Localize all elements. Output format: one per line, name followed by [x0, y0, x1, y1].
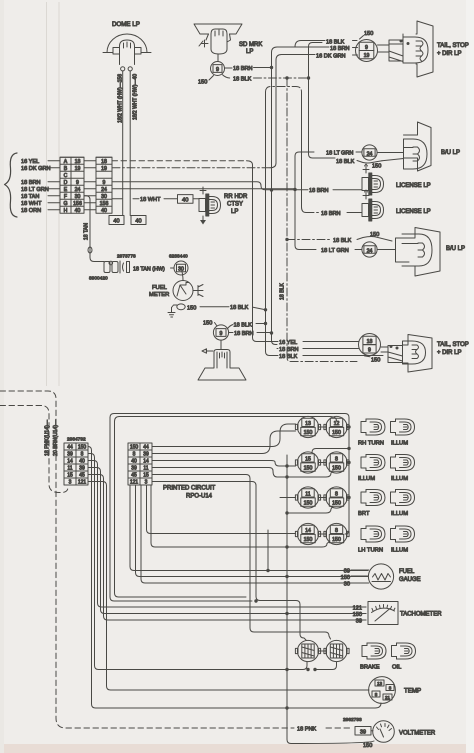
svg-text:8: 8 — [389, 685, 392, 690]
svg-text:19: 19 — [364, 53, 370, 59]
connector 18/9 (LH tail) — [359, 334, 381, 356]
wire 16 DK GRN to RH tail — [276, 53, 358, 60]
wire 18 BRN row — [112, 182, 272, 190]
wire dome 156 (18/2 WHT) — [118, 71, 124, 216]
wire 16 YEL LH tail — [279, 340, 359, 346]
svg-text:18 BLK: 18 BLK — [279, 282, 285, 300]
svg-text:18 PNK(U14)—: 18 PNK(U14)— — [45, 419, 51, 456]
wire 18 WHT box40 to CTSY — [193, 198, 199, 200]
wire 18 LT GRN row — [112, 188, 295, 190]
wire block bottom to fuel 30 — [141, 485, 368, 583]
svg-text:18 WHT: 18 WHT — [21, 201, 42, 207]
svg-text:8900420: 8900420 — [89, 276, 108, 282]
svg-text:150: 150 — [332, 537, 341, 543]
svg-text:18 BLK: 18 BLK — [233, 77, 252, 83]
svg-text:18 BRN: 18 BRN — [21, 180, 41, 186]
svg-text:18 BRN: 18 BRN — [321, 211, 341, 217]
svg-text:ILLUM: ILLUM — [358, 476, 375, 482]
wire 18 BLK B/U 1 + 150 — [336, 159, 382, 170]
lamp RR HDR CTSY LP — [199, 187, 248, 225]
bulb ILLUM — [391, 455, 415, 471]
wire block L to tach 39 — [88, 475, 366, 621]
svg-text:150: 150 — [341, 575, 350, 581]
wire block to socket row2 b — [152, 468, 333, 478]
wire 18 BLK to RH tail — [295, 39, 357, 47]
label PRINTED CIRCUIT RPO-U14 — [163, 486, 216, 500]
svg-text:2984792: 2984792 — [67, 437, 86, 443]
wire block to socket row2 a — [152, 461, 296, 467]
svg-text:8: 8 — [375, 692, 378, 697]
svg-text:BRAKE: BRAKE — [360, 665, 380, 671]
harness brace — [5, 153, 18, 217]
wire block bottom to socket row4 — [147, 485, 296, 534]
wire loop inner (top, to socket row1b) — [115, 417, 337, 422]
svg-text:18 LT GRN: 18 LT GRN — [321, 248, 349, 254]
svg-text:LICENSE LP: LICENSE LP — [396, 183, 431, 189]
bulb RH TURN — [361, 419, 385, 435]
wire block bottom to fuel 150 — [136, 485, 369, 577]
instrument socket 8/150 — [324, 452, 349, 473]
svg-text:8: 8 — [335, 528, 338, 534]
svg-text:18 BRN: 18 BRN — [309, 188, 329, 194]
svg-text:18 TAN (HW): 18 TAN (HW) — [133, 266, 165, 272]
connector box 40 (right) — [131, 216, 146, 225]
bulb BRT — [361, 490, 385, 506]
wire 18 BRN LH tail — [279, 347, 359, 353]
socket jumper — [319, 426, 326, 428]
wire license 2 drop — [302, 92, 307, 213]
wire row1 jumper — [312, 449, 349, 453]
svg-text:BRT: BRT — [358, 511, 370, 517]
svg-text:PRINTED CIRCUIT: PRINTED CIRCUIT — [163, 486, 216, 492]
svg-text:150: 150 — [304, 430, 313, 436]
svg-text:18 BLK: 18 BLK — [279, 354, 298, 360]
svg-text:ILLUM: ILLUM — [391, 548, 408, 554]
svg-text:18 BRN: 18 BRN — [233, 66, 253, 72]
lamp TAIL STOP + DIR LP (RH, top) — [389, 21, 433, 77]
svg-text:B/U LP: B/U LP — [441, 150, 460, 156]
ground lug 150 (fuel) — [168, 304, 266, 317]
bulb ILLUM — [391, 490, 415, 506]
svg-text:150: 150 — [364, 31, 373, 37]
bulb LH TURN — [361, 526, 385, 542]
svg-text:11: 11 — [305, 492, 310, 498]
connector 9 (rear side marker) — [203, 321, 229, 341]
svg-text:39: 39 — [344, 568, 350, 574]
svg-text:16 YEL: 16 YEL — [279, 340, 297, 346]
svg-text:SD MRK: SD MRK — [239, 42, 262, 48]
svg-text:39: 39 — [356, 619, 362, 625]
svg-text:LP: LP — [231, 209, 238, 215]
inline connectors fuel — [104, 261, 130, 273]
svg-text:8: 8 — [335, 457, 338, 463]
wire 18 BLK B/U 2 + 150 — [333, 232, 392, 244]
svg-text:18 BRN: 18 BRN — [234, 331, 254, 337]
svg-text:20 BRN(U14)—: 20 BRN(U14)— — [53, 419, 59, 456]
instrument socket 11/150 — [295, 487, 320, 508]
connector block C100 (letters) — [60, 157, 84, 214]
wire leads RH tail — [378, 45, 390, 52]
bulb OIL — [392, 643, 416, 659]
svg-text:GAUGE: GAUGE — [399, 577, 421, 583]
svg-text:21: 21 — [385, 695, 391, 700]
svg-text:150: 150 — [332, 466, 341, 472]
svg-text:METER: METER — [149, 292, 169, 298]
svg-text:+ DIR LP: + DIR LP — [437, 350, 462, 356]
svg-text:9: 9 — [216, 67, 219, 73]
wire loop outer left leg — [110, 418, 258, 603]
wire block L to tach 150 — [88, 468, 366, 614]
svg-text:2962793: 2962793 — [343, 717, 362, 723]
wire 18 BRN trunk — [270, 53, 341, 349]
svg-text:3: 3 — [69, 480, 72, 486]
svg-text:18/2 WHT (HW)—156: 18/2 WHT (HW)—156 — [118, 74, 124, 123]
svg-text:150: 150 — [304, 466, 313, 472]
bulb ILLUM — [391, 526, 415, 542]
svg-text:9: 9 — [220, 331, 223, 337]
socket jumper — [319, 497, 326, 499]
lamp B/U LP 2 (wide) — [396, 228, 441, 277]
svg-text:ILLUM: ILLUM — [391, 476, 408, 482]
wire block row6 to BRAKE top — [152, 482, 306, 641]
wire 18 BLK side marker (dash-dot) — [223, 75, 311, 83]
svg-text:24: 24 — [367, 248, 373, 254]
svg-text:RR HDR: RR HDR — [224, 194, 248, 200]
svg-text:18: 18 — [367, 339, 373, 345]
svg-text:TAIL, STOP: TAIL, STOP — [437, 43, 469, 49]
svg-text:LP: LP — [246, 49, 253, 55]
wire 18 BRN license 2 (dash-dot) — [306, 211, 362, 217]
svg-text:FUEL: FUEL — [152, 285, 168, 291]
lamp TAIL STOP + DIR LP (LH) — [381, 335, 432, 373]
svg-text:16 DK GRN: 16 DK GRN — [21, 166, 51, 172]
svg-text:40: 40 — [182, 198, 188, 204]
svg-text:+ DIR LP: + DIR LP — [437, 51, 462, 57]
svg-text:40: 40 — [135, 219, 141, 225]
wire jumper dash-dot upper — [266, 87, 302, 93]
harness wire labels — [21, 159, 60, 214]
svg-text:8: 8 — [335, 492, 338, 498]
svg-text:18 ORN: 18 ORN — [21, 208, 41, 214]
label 150 (tail lamp RH) — [360, 31, 374, 39]
svg-text:TACHOMETER: TACHOMETER — [400, 612, 442, 618]
svg-text:150: 150 — [371, 357, 380, 363]
svg-text:150: 150 — [187, 306, 196, 312]
svg-text:13: 13 — [377, 681, 383, 686]
instrument socket 14/150 — [295, 523, 320, 544]
svg-text:18 BLK: 18 BLK — [230, 305, 249, 311]
svg-text:LH TURN: LH TURN — [358, 548, 383, 554]
wire 18 BRN side marker — [225, 66, 273, 72]
wire socket row3 stub — [280, 497, 296, 499]
label TAIL STOP + DIR LP (LH) — [437, 342, 469, 356]
wire 150 ground bus — [285, 455, 374, 744]
instrument socket 8/150 — [324, 523, 349, 544]
connector 30 — [171, 261, 189, 275]
connector 24 (B/U 2) — [321, 242, 396, 257]
wire block L to temp — [88, 482, 369, 691]
svg-text:13: 13 — [305, 421, 311, 427]
svg-text:40: 40 — [113, 219, 119, 225]
connector 9/19 (RH tail) — [356, 40, 378, 62]
svg-text:18 LT GRN: 18 LT GRN — [21, 187, 49, 193]
instrument socket 13/150 — [295, 416, 320, 437]
tachometer — [353, 602, 443, 625]
svg-text:16 YEL: 16 YEL — [21, 159, 39, 165]
lamp rear side marker — [198, 340, 246, 380]
fuel gauge — [341, 564, 421, 589]
svg-text:2973778: 2973778 — [117, 254, 136, 260]
wire 18 BLK rear marker — [228, 323, 266, 329]
svg-text:12: 12 — [334, 421, 340, 427]
connector box 40 (left) — [109, 216, 124, 225]
wire 18 TAN drop — [84, 196, 105, 262]
svg-text:18/2 WHT (HW)—40: 18/2 WHT (HW)—40 — [132, 74, 138, 120]
wire 18 BLK LH tail — [279, 354, 358, 360]
voltmeter — [373, 721, 436, 743]
svg-text:H: H — [64, 208, 68, 214]
lamp SD MRK LP — [194, 24, 262, 55]
svg-text:B/U LP: B/U LP — [446, 246, 465, 252]
socket jumper — [319, 462, 326, 464]
connector 24 (B/U 1) — [326, 145, 403, 160]
svg-text:39: 39 — [360, 729, 366, 735]
wire block to socket row1 a — [152, 424, 296, 447]
lamp DOME LP — [103, 21, 151, 71]
lamp LICENSE LP 2 — [362, 190, 431, 221]
svg-text:6288440: 6288440 — [169, 254, 188, 260]
wire stub fuel 39 tee — [267, 530, 269, 571]
dashed wire 18 PNK(U14) — [0, 391, 353, 733]
svg-text:150: 150 — [304, 501, 313, 507]
wire 150 dash-dot trunk (to LH tail) — [287, 78, 357, 362]
svg-text:121: 121 — [78, 480, 87, 486]
wire 16 DK GRN row — [112, 167, 270, 169]
svg-text:150: 150 — [332, 501, 341, 507]
svg-text:14: 14 — [305, 528, 311, 534]
svg-text:150: 150 — [372, 164, 381, 170]
svg-text:9: 9 — [368, 347, 371, 353]
svg-text:18 TAN: 18 TAN — [84, 223, 90, 240]
svg-text:18 PNK: 18 PNK — [297, 727, 317, 733]
instrument socket 8/150 — [324, 487, 349, 508]
wire 18 BRN to RH tail — [272, 46, 358, 53]
wire 18 LT GRN bus — [293, 152, 316, 250]
svg-text:ILLUM: ILLUM — [391, 511, 408, 517]
wire dome 40 (18/2 WHT) — [130, 71, 138, 216]
label 150 (LH tail) — [365, 356, 381, 363]
bulb ILLUM — [361, 455, 385, 471]
svg-text:18 BLK: 18 BLK — [234, 323, 253, 329]
svg-text:150: 150 — [332, 430, 341, 436]
label 150 (side marker ground) — [198, 76, 214, 86]
wire 18 BRN license 1 — [272, 188, 363, 194]
svg-text:40: 40 — [101, 208, 107, 214]
wire row4 bottom jumper — [151, 485, 330, 547]
svg-text:15: 15 — [305, 457, 311, 463]
bulb ILLUM — [391, 419, 415, 435]
svg-text:FUEL: FUEL — [399, 569, 415, 575]
label TAIL STOP + DIR LP (RH) — [437, 43, 469, 57]
svg-text:24: 24 — [367, 151, 373, 157]
svg-text:TAIL, STOP: TAIL, STOP — [437, 342, 469, 348]
wire block L to tach 121 — [88, 461, 366, 608]
wire loop outer (top) — [110, 414, 351, 535]
connector 9 (side marker) — [211, 54, 225, 76]
svg-text:CTSY: CTSY — [227, 202, 243, 208]
svg-text:40: 40 — [75, 208, 81, 214]
svg-text:150: 150 — [353, 612, 362, 618]
temp gauge — [369, 677, 422, 704]
wire block L to brake lamp bottoms — [88, 454, 307, 670]
svg-text:ILLUM: ILLUM — [391, 441, 408, 447]
wire block bottom to fuel 39 — [130, 485, 368, 571]
svg-text:16 DK GRN: 16 DK GRN — [316, 53, 346, 59]
wire 16 YEL row — [112, 160, 247, 162]
svg-text:18 BRN: 18 BRN — [279, 347, 299, 353]
svg-text:18 WHT: 18 WHT — [140, 197, 161, 203]
wire 16 YEL trunk (to LH tail) — [253, 165, 279, 342]
svg-text:LICENSE LP: LICENSE LP — [396, 209, 431, 215]
lamp B/U LP 1 — [382, 122, 431, 171]
wire 18 BRN rear marker — [229, 331, 271, 337]
dashed wire 20 BRN(U14) — [0, 406, 68, 493]
svg-text:TEMP: TEMP — [404, 688, 421, 695]
svg-text:RH TURN: RH TURN — [358, 441, 384, 447]
lamp LICENSE LP 1 — [362, 164, 431, 195]
wire 18 BLK trunk (to LH tail) — [264, 92, 383, 356]
connector block C100 mate (numbers) — [96, 157, 112, 214]
svg-text:OIL: OIL — [392, 665, 402, 671]
brake socket — [295, 640, 320, 661]
svg-text:RPO-U14: RPO-U14 — [186, 494, 213, 500]
svg-text:30: 30 — [344, 581, 350, 587]
svg-text:150: 150 — [304, 537, 313, 543]
bulb BRAKE — [362, 643, 386, 659]
svg-text:150: 150 — [198, 80, 207, 86]
wire block row5 to OIL top — [152, 475, 331, 640]
svg-text:18 BRN: 18 BRN — [330, 46, 350, 52]
wire BLK drop to B/U 1 — [309, 47, 336, 159]
brake oil jumper — [319, 650, 326, 652]
svg-text:18 BLK: 18 BLK — [333, 238, 352, 244]
svg-text:18 LT GRN: 18 LT GRN — [326, 151, 353, 157]
instrument socket 15/150 — [295, 452, 320, 473]
svg-text:18 TAN: 18 TAN — [21, 194, 39, 200]
printed circuit connector (right) — [128, 443, 152, 486]
wire block L to temp ground — [88, 447, 381, 709]
svg-text:VOLTMETER: VOLTMETER — [399, 731, 436, 737]
svg-text:150: 150 — [363, 743, 372, 749]
wire socket row3 bottom jumper — [287, 506, 333, 513]
wire 18 WHT + box 40 — [112, 195, 193, 204]
svg-text:150: 150 — [203, 321, 212, 327]
instrument socket 12/150 — [324, 416, 349, 437]
printed circuit connector (left) — [64, 443, 88, 486]
wire BLK dash-dot branch to B/U 2 — [287, 239, 331, 241]
svg-text:121: 121 — [130, 480, 139, 486]
wire block to socket row1 b — [152, 431, 296, 454]
svg-text:DOME LP: DOME LP — [112, 21, 140, 28]
block row links — [84, 161, 96, 210]
svg-text:18 BLK: 18 BLK — [336, 159, 355, 165]
svg-text:18 BLK: 18 BLK — [326, 39, 345, 45]
fuel meter — [149, 268, 203, 301]
oil socket — [324, 640, 349, 661]
svg-text:121: 121 — [353, 606, 362, 612]
socket jumper — [319, 533, 326, 535]
connector 39 (voltmeter) — [355, 727, 373, 736]
